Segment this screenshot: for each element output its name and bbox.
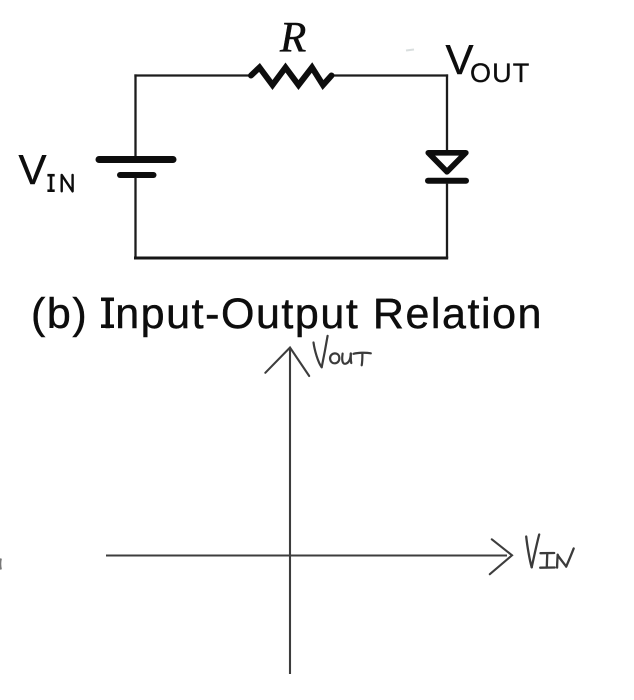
arrowhead: vertical axis bbox=[265, 348, 309, 377]
svg-text:V: V bbox=[19, 146, 47, 193]
label VOUT (node) bbox=[446, 36, 531, 88]
diode D1 cathode bar bbox=[428, 178, 466, 184]
axis: vertical (Vout axis) bbox=[289, 348, 291, 675]
arrowhead: horizontal axis bbox=[490, 539, 512, 574]
wire: right lower segment bbox=[446, 183, 448, 258]
svg-text:R: R bbox=[279, 15, 306, 62]
wire: right upper segment bbox=[446, 74, 448, 150]
wire: top right segment bbox=[332, 74, 448, 76]
battery V1 long plate bbox=[99, 156, 173, 163]
resistor R bbox=[251, 68, 332, 86]
stray faint mark near VOUT bbox=[406, 50, 414, 51]
wire: bottom segment bbox=[134, 257, 448, 260]
handwritten label Vout (axis label) bbox=[314, 336, 371, 367]
label VIN (node) bbox=[19, 146, 73, 193]
wire: left upper segment bbox=[134, 74, 136, 157]
handwritten label VIN (axis label) bbox=[526, 535, 574, 568]
wire: left lower segment bbox=[134, 178, 136, 259]
diode D1 triangle (anode) bbox=[428, 153, 466, 172]
stray mark at left edge bbox=[0, 559, 2, 570]
svg-text:OUT: OUT bbox=[470, 58, 530, 88]
wire: top left segment bbox=[134, 74, 251, 76]
axis: horizontal (Vin axis) bbox=[106, 554, 507, 556]
svg-text:(b) Input-Output Relation: (b) Input-Output Relation bbox=[31, 290, 543, 338]
caption (b) Input-Output Relation bbox=[31, 290, 543, 338]
battery V1 short plate bbox=[120, 172, 154, 178]
